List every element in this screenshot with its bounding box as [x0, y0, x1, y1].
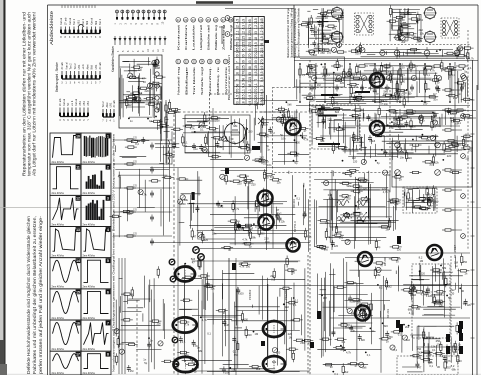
- svg-text:Schärfe regl: Schärfe regl: [200, 66, 204, 95]
- svg-text:2k2: 2k2: [219, 205, 224, 209]
- svg-text:30: 30: [248, 37, 252, 41]
- svg-text:7: 7: [254, 79, 258, 81]
- svg-text:ZF arb: ZF arb: [61, 62, 64, 70]
- svg-text:4,7k: 4,7k: [190, 127, 196, 131]
- svg-text:Kontrast: Kontrast: [176, 25, 180, 50]
- svg-text:170: 170: [254, 53, 258, 59]
- svg-text:2ms 40Vss: 2ms 40Vss: [83, 192, 96, 195]
- svg-text:2k2: 2k2: [428, 360, 433, 364]
- svg-text:4,7k: 4,7k: [242, 237, 248, 241]
- svg-text:Ton 2: Ton 2: [73, 18, 76, 25]
- svg-text:0,1: 0,1: [358, 138, 362, 142]
- svg-text:1n: 1n: [458, 342, 461, 346]
- svg-text:250: 250: [436, 339, 441, 343]
- svg-text:220: 220: [315, 44, 320, 48]
- svg-text:Kan al: Kan al: [63, 98, 66, 106]
- svg-text:5: 5: [107, 259, 109, 263]
- svg-text:ZF arb: ZF arb: [59, 98, 62, 106]
- svg-text:225: 225: [242, 42, 246, 48]
- svg-text:Bild: Bild: [91, 65, 94, 70]
- svg-text:2k2: 2k2: [256, 367, 261, 371]
- svg-text:220: 220: [138, 68, 143, 72]
- svg-text:33: 33: [254, 31, 258, 35]
- svg-text:250: 250: [388, 335, 393, 339]
- svg-text:12: 12: [236, 37, 240, 41]
- svg-text:0,1: 0,1: [432, 348, 436, 352]
- svg-text:5k6: 5k6: [345, 326, 350, 330]
- svg-text:8,2: 8,2: [183, 144, 187, 148]
- svg-text:215: 215: [242, 94, 246, 100]
- svg-text:4,7k: 4,7k: [430, 68, 436, 72]
- svg-text:220: 220: [401, 15, 406, 19]
- svg-text:1M: 1M: [385, 227, 389, 231]
- svg-text:2k2: 2k2: [401, 40, 406, 44]
- svg-text:2ms 40Vss: 2ms 40Vss: [83, 223, 96, 226]
- svg-text:12: 12: [236, 25, 240, 29]
- svg-text:18: 18: [236, 72, 240, 76]
- svg-text:ZF arb: ZF arb: [64, 17, 67, 25]
- svg-text:0,1: 0,1: [182, 340, 186, 344]
- svg-text:250: 250: [206, 119, 211, 123]
- svg-text:2ms 40Vss: 2ms 40Vss: [83, 348, 96, 351]
- svg-text:65: 65: [248, 19, 252, 23]
- svg-text:2ms 40Vss: 2ms 40Vss: [52, 348, 65, 351]
- svg-text:58: 58: [248, 66, 252, 70]
- svg-text:100: 100: [296, 141, 301, 145]
- svg-text:8,2: 8,2: [451, 364, 455, 368]
- svg-text:Zeilenfreq.: Zeilenfreq.: [208, 67, 212, 95]
- svg-text:2k2: 2k2: [313, 53, 318, 57]
- svg-text:10n: 10n: [400, 156, 405, 160]
- svg-text:12k: 12k: [401, 92, 406, 96]
- svg-text:Zeichen in Abhängigkeit von 40: Zeichen in Abhängigkeit von 40% Betrieb: [297, 8, 301, 58]
- svg-text:4,5: 4,5: [254, 71, 258, 76]
- svg-text:220: 220: [417, 356, 422, 360]
- svg-text:Farbton: Farbton: [184, 24, 188, 50]
- svg-text:5k6: 5k6: [191, 257, 196, 261]
- svg-text:7: 7: [236, 79, 240, 81]
- svg-text:Kanalleisten-Stecker: Kanalleisten-Stecker: [111, 45, 115, 72]
- svg-text:215: 215: [260, 100, 264, 106]
- svg-text:0,1: 0,1: [322, 65, 326, 69]
- svg-text:100: 100: [393, 111, 398, 115]
- svg-text:Bild: Bild: [95, 20, 98, 25]
- svg-text:PCF802: PCF802: [248, 289, 252, 300]
- svg-text:5k6: 5k6: [371, 139, 376, 143]
- svg-text:Helligkeit hell: Helligkeit hell: [199, 24, 203, 50]
- svg-text:5k6: 5k6: [287, 103, 292, 107]
- svg-text:100: 100: [338, 230, 343, 234]
- svg-text:BFY51 II: BFY51 II: [293, 221, 297, 232]
- svg-text:1n: 1n: [157, 102, 160, 106]
- svg-text:5p: 5p: [368, 116, 371, 120]
- svg-text:68k: 68k: [176, 110, 181, 114]
- svg-text:250: 250: [320, 51, 325, 55]
- svg-text:4,7k: 4,7k: [239, 264, 245, 268]
- svg-text:2k2: 2k2: [270, 274, 275, 278]
- svg-text:0,1: 0,1: [295, 299, 299, 303]
- svg-text:12k: 12k: [426, 138, 431, 142]
- svg-text:Ton 2: Ton 2: [70, 63, 73, 70]
- svg-text:AF 195/17: AF 195/17: [453, 245, 457, 258]
- svg-text:2ms 40Vss: 2ms 40Vss: [83, 286, 96, 289]
- svg-text:250: 250: [346, 196, 351, 200]
- svg-text:5k6: 5k6: [347, 184, 352, 188]
- svg-text:100: 100: [325, 221, 330, 225]
- svg-text:30: 30: [230, 137, 233, 141]
- svg-text:0,9: 0,9: [260, 25, 264, 30]
- svg-text:UB1: UB1: [79, 101, 82, 106]
- svg-text:5k6: 5k6: [432, 118, 437, 122]
- svg-text:5k6: 5k6: [345, 75, 350, 79]
- svg-text:250: 250: [202, 148, 207, 152]
- svg-text:0,5: 0,5: [260, 77, 264, 82]
- svg-text:2k2: 2k2: [418, 351, 423, 355]
- svg-text:250: 250: [181, 202, 186, 206]
- svg-text:Abdeckleiste: Abdeckleiste: [49, 10, 54, 45]
- svg-text:2,1: 2,1: [236, 30, 240, 35]
- svg-text:Bildfang regl: Bildfang regl: [229, 24, 233, 50]
- svg-text:250: 250: [360, 98, 365, 102]
- svg-text:8,2: 8,2: [271, 131, 275, 135]
- svg-text:220: 220: [145, 89, 150, 93]
- svg-text:100: 100: [339, 236, 344, 240]
- svg-text:UB1: UB1: [87, 101, 90, 106]
- svg-text:Als Lötgut darf nur Lötzin: Als Lötgut darf nur Lötzinn mit mindeste…: [32, 12, 37, 176]
- svg-text:10n: 10n: [212, 231, 217, 235]
- svg-text:170: 170: [236, 88, 240, 94]
- svg-text:0,1: 0,1: [271, 277, 275, 281]
- svg-text:58: 58: [242, 78, 246, 82]
- svg-text:0,1: 0,1: [409, 196, 413, 200]
- svg-text:Ton 2: Ton 2: [82, 18, 85, 25]
- svg-text:+E b: +E b: [71, 100, 74, 106]
- svg-text:4,7k: 4,7k: [446, 359, 452, 363]
- svg-text:95: 95: [248, 48, 252, 52]
- svg-text:1M: 1M: [412, 124, 416, 128]
- svg-text:PY88: PY88: [290, 268, 294, 275]
- svg-text:13: 13: [76, 228, 80, 232]
- svg-text:100: 100: [416, 307, 421, 311]
- svg-text:10n: 10n: [389, 198, 394, 202]
- svg-text:OC304: OC304: [292, 199, 296, 208]
- svg-text:220: 220: [288, 332, 293, 336]
- svg-text:2k2: 2k2: [285, 305, 290, 309]
- svg-text:1M: 1M: [420, 259, 424, 263]
- svg-text:100: 100: [276, 351, 281, 355]
- svg-text:4,7k: 4,7k: [307, 234, 313, 238]
- svg-text:30: 30: [236, 66, 240, 70]
- svg-text:30: 30: [242, 54, 246, 58]
- svg-text:12k: 12k: [467, 303, 472, 307]
- svg-text:18: 18: [254, 37, 258, 41]
- svg-text:4,7k: 4,7k: [234, 207, 240, 211]
- svg-text:95: 95: [248, 72, 252, 76]
- svg-text:4,5: 4,5: [260, 36, 264, 41]
- svg-text:17: 17: [76, 353, 80, 357]
- svg-text:2k2: 2k2: [419, 18, 424, 22]
- svg-text:12k: 12k: [431, 345, 436, 349]
- svg-text:145: 145: [236, 48, 240, 54]
- svg-text:220: 220: [327, 118, 332, 122]
- svg-text:Zeilenfang: Zeilenfang: [221, 24, 225, 50]
- svg-text:6,3: 6,3: [242, 25, 246, 30]
- svg-text:4,7k: 4,7k: [383, 190, 389, 194]
- svg-text:10n: 10n: [264, 123, 269, 127]
- svg-text:68k: 68k: [321, 247, 326, 251]
- svg-text:5p: 5p: [266, 144, 269, 148]
- svg-text:8,2: 8,2: [440, 354, 444, 358]
- svg-text:170: 170: [260, 59, 264, 65]
- svg-text:Bedienungsteil - Stecker: Bedienungsteil - Stecker: [55, 61, 59, 92]
- svg-text:5k6: 5k6: [361, 338, 366, 342]
- svg-text:215: 215: [260, 94, 264, 100]
- svg-text:68k: 68k: [442, 266, 447, 270]
- svg-text:30: 30: [242, 60, 246, 64]
- svg-text:220: 220: [386, 173, 391, 177]
- svg-text:100: 100: [265, 240, 270, 244]
- svg-text:4,7k: 4,7k: [469, 56, 475, 60]
- svg-text:0,1: 0,1: [293, 303, 297, 307]
- svg-text:0,5: 0,5: [260, 71, 264, 76]
- svg-text:Kan al: Kan al: [60, 17, 63, 25]
- svg-text:68k: 68k: [320, 139, 325, 143]
- svg-text:30: 30: [254, 60, 258, 64]
- svg-text:8,2: 8,2: [394, 348, 398, 352]
- svg-text:1,2: 1,2: [254, 25, 258, 30]
- svg-text:1: 1: [107, 134, 109, 138]
- svg-text:1M: 1M: [255, 332, 259, 336]
- svg-text:5k6: 5k6: [218, 138, 223, 142]
- svg-text:Kan al: Kan al: [90, 17, 93, 25]
- svg-text:0,1: 0,1: [184, 140, 188, 144]
- svg-text:0,1: 0,1: [261, 159, 265, 163]
- svg-text:0,1: 0,1: [149, 119, 153, 123]
- svg-text:Bildnummer und Wert: Bildnummer und Wert: [228, 54, 231, 100]
- svg-text:220: 220: [353, 160, 358, 164]
- svg-text:250: 250: [248, 129, 253, 133]
- svg-text:UB1: UB1: [109, 102, 112, 107]
- svg-text:10n: 10n: [425, 336, 430, 340]
- svg-text:UB1: UB1: [83, 101, 86, 106]
- svg-text:8,2: 8,2: [290, 115, 294, 119]
- svg-text:2ms 40Vss: 2ms 40Vss: [52, 372, 65, 375]
- svg-text:2k2: 2k2: [419, 28, 424, 32]
- svg-text:OC171: OC171: [282, 109, 286, 118]
- svg-text:250: 250: [453, 96, 458, 100]
- svg-text:4,7k: 4,7k: [142, 193, 148, 197]
- svg-text:2ms 40Vss: 2ms 40Vss: [83, 372, 96, 375]
- svg-text:0,1: 0,1: [355, 138, 359, 142]
- svg-text:10n: 10n: [379, 101, 384, 105]
- svg-text:4,5: 4,5: [236, 95, 240, 100]
- svg-text:7: 7: [260, 84, 264, 86]
- svg-text:220: 220: [247, 333, 252, 337]
- svg-text:68k: 68k: [294, 154, 299, 158]
- svg-text:2k2: 2k2: [406, 338, 411, 342]
- svg-text:NF: NF: [67, 102, 70, 106]
- svg-text:215: 215: [254, 65, 258, 71]
- svg-text:0,1: 0,1: [398, 332, 402, 336]
- svg-text:0,1: 0,1: [207, 332, 211, 336]
- svg-text:5k6: 5k6: [408, 156, 413, 160]
- svg-text:100: 100: [119, 342, 124, 346]
- svg-text:220: 220: [421, 272, 426, 276]
- svg-text:250: 250: [215, 118, 220, 122]
- svg-text:0,9: 0,9: [242, 83, 246, 88]
- svg-text:58: 58: [236, 84, 240, 88]
- svg-text:2k2: 2k2: [344, 370, 349, 374]
- svg-text:250: 250: [463, 260, 468, 264]
- svg-text:100: 100: [396, 201, 401, 205]
- svg-text:170: 170: [242, 71, 246, 77]
- svg-text:68k: 68k: [184, 198, 189, 202]
- svg-text:170: 170: [248, 53, 252, 59]
- svg-text:220: 220: [383, 98, 388, 102]
- svg-text:AF 200: AF 200: [383, 257, 387, 266]
- svg-text:170: 170: [248, 24, 252, 30]
- svg-text:8,2: 8,2: [249, 226, 253, 230]
- svg-text:2ms 40Vss: 2ms 40Vss: [83, 317, 96, 320]
- svg-text:12k: 12k: [311, 98, 316, 102]
- svg-text:2,1: 2,1: [242, 89, 246, 94]
- svg-text:100: 100: [327, 51, 332, 55]
- svg-text:Fabrikates und mit unbeding: Fabrikates und mit unbedingt der gleiche…: [32, 216, 37, 374]
- svg-text:68k: 68k: [218, 145, 223, 149]
- svg-text:68k: 68k: [341, 128, 346, 132]
- svg-text:2,1: 2,1: [254, 83, 258, 88]
- svg-text:220: 220: [450, 112, 455, 116]
- svg-text:2ms 40Vss: 2ms 40Vss: [52, 286, 65, 289]
- svg-text:220: 220: [405, 34, 410, 38]
- svg-text:Ton 2: Ton 2: [102, 101, 105, 108]
- svg-text:100: 100: [351, 299, 356, 303]
- svg-text:0,9: 0,9: [242, 19, 246, 24]
- svg-text:Ton blende: Ton blende: [192, 66, 196, 95]
- svg-text:250: 250: [260, 232, 265, 236]
- svg-text:11: 11: [76, 166, 80, 170]
- svg-text:1n: 1n: [197, 346, 200, 350]
- svg-text:2k2: 2k2: [399, 122, 404, 126]
- svg-text:12k: 12k: [435, 160, 440, 164]
- svg-text:215: 215: [254, 18, 258, 24]
- svg-text:68k: 68k: [233, 124, 238, 128]
- svg-text:5k6: 5k6: [327, 42, 332, 46]
- svg-text:ZF arb: ZF arb: [113, 100, 116, 108]
- svg-text:100: 100: [434, 200, 439, 204]
- svg-text:1M: 1M: [203, 125, 207, 129]
- svg-text:68k: 68k: [428, 353, 433, 357]
- svg-text:Ton 2: Ton 2: [99, 18, 102, 25]
- svg-text:100: 100: [170, 155, 175, 159]
- svg-text:4,7k: 4,7k: [303, 138, 309, 142]
- svg-text:7: 7: [107, 321, 109, 325]
- svg-text:14: 14: [76, 259, 80, 263]
- svg-text:1M: 1M: [130, 369, 134, 373]
- svg-text:PCL200: PCL200: [284, 289, 288, 300]
- svg-text:95: 95: [260, 43, 264, 47]
- svg-text:2ms 40Vss: 2ms 40Vss: [83, 254, 96, 257]
- svg-text:100: 100: [244, 317, 249, 321]
- svg-text:220: 220: [204, 238, 209, 242]
- svg-text:5p: 5p: [280, 133, 283, 137]
- svg-text:68k: 68k: [272, 360, 277, 364]
- svg-text:8,2: 8,2: [135, 142, 139, 146]
- svg-text:Bildbreite reg: Bildbreite reg: [214, 24, 218, 50]
- svg-text:2ms 40Vss: 2ms 40Vss: [52, 317, 65, 320]
- svg-text:Abst: Abst: [86, 64, 89, 69]
- svg-text:1M: 1M: [289, 336, 293, 340]
- svg-text:8,2: 8,2: [400, 89, 404, 93]
- svg-text:2ms 40Vss: 2ms 40Vss: [52, 254, 65, 257]
- svg-text:4,7k: 4,7k: [184, 323, 190, 327]
- svg-text:1,2: 1,2: [260, 30, 264, 35]
- svg-text:68k: 68k: [400, 150, 405, 154]
- svg-text:100: 100: [156, 322, 161, 326]
- svg-text:4,7k: 4,7k: [346, 351, 352, 355]
- svg-text:2k2: 2k2: [428, 192, 433, 196]
- svg-text:95: 95: [242, 48, 246, 52]
- svg-text:6,3: 6,3: [260, 89, 264, 94]
- svg-text:4,7k: 4,7k: [320, 108, 326, 112]
- svg-text:10n: 10n: [433, 97, 438, 101]
- svg-text:8,2: 8,2: [379, 285, 383, 289]
- svg-text:220: 220: [447, 154, 452, 158]
- svg-text:4,7k: 4,7k: [264, 135, 270, 139]
- svg-text:UB1: UB1: [78, 64, 81, 69]
- svg-text:3: 3: [107, 197, 109, 201]
- svg-text:5k6: 5k6: [400, 11, 405, 15]
- svg-text:12k: 12k: [281, 220, 286, 224]
- svg-text:perlen müssen auf jeden Fa: perlen müssen auf jeden Fall und in glei…: [38, 215, 43, 374]
- svg-text:220: 220: [231, 368, 236, 372]
- svg-text:18: 18: [242, 101, 246, 105]
- svg-text:220: 220: [334, 101, 339, 105]
- svg-text:0,1: 0,1: [468, 66, 472, 70]
- svg-text:68k: 68k: [418, 39, 423, 43]
- svg-text:Lautstärke: Lautstärke: [191, 24, 195, 50]
- svg-text:68k: 68k: [452, 368, 457, 372]
- svg-text:220: 220: [334, 244, 339, 248]
- svg-text:5k6: 5k6: [412, 293, 417, 297]
- svg-text:2: 2: [107, 166, 109, 170]
- svg-text:5p: 5p: [211, 228, 214, 232]
- svg-text:Normalspannungen und Oszillogr: Normalspannungen und Oszillogramme gemes…: [112, 133, 116, 372]
- svg-text:2ms 40Vss: 2ms 40Vss: [52, 161, 65, 164]
- svg-text:0,1: 0,1: [296, 196, 300, 200]
- svg-text:1M: 1M: [317, 83, 321, 87]
- svg-text:170: 170: [248, 42, 252, 48]
- svg-text:Kan al: Kan al: [75, 98, 78, 106]
- svg-text:0,9: 0,9: [248, 95, 252, 100]
- svg-text:2k2: 2k2: [355, 96, 360, 100]
- svg-text:2ms 40Vss: 2ms 40Vss: [83, 161, 96, 164]
- svg-text:2k2: 2k2: [128, 103, 133, 107]
- svg-text:68k: 68k: [198, 349, 203, 353]
- svg-text:250: 250: [313, 30, 318, 34]
- svg-text:4: 4: [107, 228, 109, 232]
- svg-text:2k2: 2k2: [388, 284, 393, 288]
- svg-text:12k: 12k: [231, 141, 236, 145]
- svg-text:UB1: UB1: [77, 20, 80, 25]
- svg-text:7: 7: [236, 61, 240, 63]
- svg-text:4,7k: 4,7k: [409, 311, 415, 315]
- svg-text:Bildlage: Bildlage: [184, 66, 188, 95]
- svg-text:5k6: 5k6: [384, 90, 389, 94]
- svg-text:1M: 1M: [383, 69, 387, 73]
- svg-text:225: 225: [254, 94, 258, 100]
- svg-text:1M: 1M: [354, 85, 358, 89]
